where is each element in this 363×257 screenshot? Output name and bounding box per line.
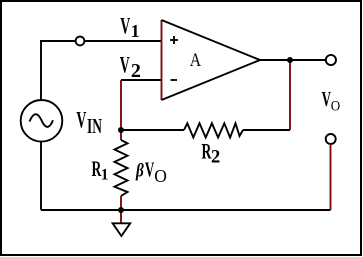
svg-text:1: 1 [101,166,109,183]
node: output junction dot [287,57,293,63]
wire: source top to input terminal [41,41,76,100]
svg-text:1: 1 [131,21,140,41]
wire: node to R2 left [121,129,184,131]
svg-text:V: V [145,157,155,181]
wire: terminal to op-amp + input [84,40,161,42]
terminal (open circle) Vo top [326,55,336,65]
wire: op-amp - input horizontal [121,79,162,81]
label VO right [322,87,341,114]
wire: source bottom to ground rail [40,142,42,210]
wire: output down to feedback (maroon) [289,60,291,130]
label VIN [76,108,102,138]
svg-text:V: V [76,108,86,133]
svg-text:2: 2 [131,60,141,82]
svg-text:V: V [120,14,130,39]
node: summing node dot [118,127,124,133]
terminal (open circle) at V1 input [76,37,85,46]
svg-text:V: V [322,87,332,111]
ground symbol [113,223,131,236]
op-amp minus sign [171,79,178,81]
wire: bottom rail [41,209,331,211]
svg-text:A: A [190,50,202,70]
voltage source VIN circle [21,100,63,142]
wire: R1 bottom stub (maroon) [120,196,122,210]
wire: bottom terminal down to rail (maroon) [330,144,332,210]
svg-text:V: V [120,53,130,78]
svg-text:β: β [135,160,144,181]
svg-text:IN: IN [87,114,102,138]
svg-text:2: 2 [211,147,220,167]
op-amp U1: left edge (maroon) [161,20,163,100]
wire: op-amp output [260,59,326,61]
terminal (open circle) Vo bottom [326,134,336,144]
label beta-VO [135,157,167,186]
svg-text:O: O [154,166,167,186]
sine wave inside source [30,114,54,127]
wire: V2 vertical (maroon) [120,80,122,130]
label R1 [92,157,109,184]
wire: R1 top stub (maroon) [120,130,122,140]
label V1 [120,14,139,41]
label V2 [120,53,141,82]
label R2 [202,139,221,167]
node: ground junction dot [118,207,124,213]
svg-text:O: O [331,98,340,114]
op-amp plus sign [170,36,178,44]
wire: ground stub (maroon) [120,210,122,223]
op-amp U1: triangle diagonals [162,20,261,100]
resistor R1 zigzag [115,140,128,196]
resistor R2 zigzag [184,123,243,137]
wire: R2 right to feedback [243,129,290,131]
